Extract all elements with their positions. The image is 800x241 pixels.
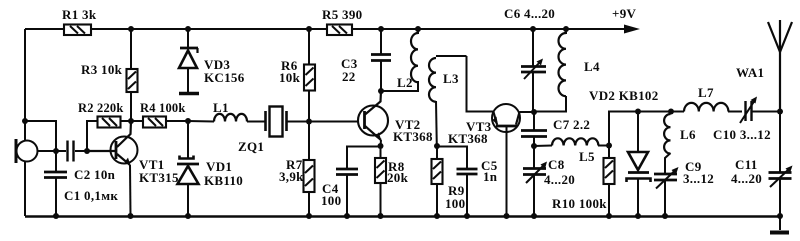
wire node to C5 [437, 147, 467, 170]
capacitor C3 [341, 55, 391, 85]
resistor R2 [78, 101, 124, 128]
svg-text:C7 2.2: C7 2.2 [553, 117, 590, 132]
wire node to R9 [436, 146, 438, 159]
node junction C6/L4/C7/collector VT3 [531, 109, 537, 115]
wire output node up and right [609, 112, 684, 146]
svg-text:L6: L6 [680, 127, 696, 142]
node junction C7/C8/L5 [531, 143, 537, 149]
svg-text:R10 100k: R10 100k [552, 196, 607, 211]
trimmer capacitor C11 [731, 157, 793, 187]
wire L6 bottom to C9 [665, 153, 671, 174]
wire VT2 emitter node [380, 140, 383, 146]
capacitor C7 [521, 117, 590, 137]
trimmer capacitor C6 [504, 6, 555, 79]
wire node to VD2 [637, 112, 639, 153]
transistor VT1 [87, 121, 179, 185]
svg-text:R4 100k: R4 100k [140, 101, 186, 115]
wire R7 to ground rail [308, 192, 310, 216]
svg-text:100: 100 [445, 196, 465, 211]
svg-text:KT315: KT315 [139, 170, 179, 185]
trimmer capacitor C9 [654, 159, 714, 189]
node junction R1/R3 on top rail [128, 26, 134, 32]
wire mic bias branch [25, 121, 56, 151]
node junction R8 on ground rail [378, 213, 384, 219]
trimmer capacitor C8 [523, 157, 575, 187]
node junction VD2 on ground rail [635, 213, 641, 219]
wire C3 bottom to collector node [380, 61, 382, 91]
node junction R9 on ground rail [434, 213, 440, 219]
wire C3 top from rail [380, 29, 382, 54]
svg-text:VD2 KB102: VD2 KB102 [589, 88, 659, 103]
node junction R10 on ground rail [606, 213, 612, 219]
node junction L4 on top rail [563, 26, 569, 32]
wire node to VT2 base [309, 121, 364, 123]
node junction C5 on ground rail [464, 213, 470, 219]
svg-text:10k: 10k [279, 70, 301, 85]
resistor R9 [432, 159, 466, 211]
node junction VT3 base on ground rail [504, 213, 510, 219]
ground terminal bar of VD3 [179, 92, 199, 95]
node junction antenna/C11 on ground rail [777, 213, 783, 219]
wire L3 bottom to R9/C5 node [435, 101, 438, 146]
svg-text:KT368: KT368 [393, 129, 433, 144]
wire C9 to ground rail [664, 181, 666, 217]
trimmer capacitor C10 [713, 97, 771, 143]
wire R9 to ground rail [436, 184, 438, 216]
wire VT3 base to ground rail [506, 127, 508, 216]
resistor R8 [375, 158, 409, 185]
wire R4 to VD1/L1 node [165, 120, 188, 122]
node junction C3 on top rail [378, 26, 384, 32]
svg-text:C10 3...12: C10 3...12 [713, 127, 771, 142]
wire top rail middle segment [91, 28, 327, 30]
wire microphone bottom to ground rail [24, 162, 26, 217]
svg-text:ZQ1: ZQ1 [238, 139, 264, 154]
wire emitter node to C4 [347, 147, 381, 170]
node junction R4/VD1/L1 [185, 118, 191, 124]
wire mic output to C1/C2 node [38, 150, 57, 152]
wire C11 to ground rail [779, 179, 781, 216]
wire top rail left segment [25, 28, 63, 30]
wire node to R10 [608, 146, 610, 159]
svg-text:R1 3k: R1 3k [62, 7, 97, 22]
wire L4 top from rail [565, 29, 567, 34]
transistor VT2 [358, 91, 433, 144]
wire VD3 anode to terminal bar [187, 68, 189, 92]
wire node to C2 [56, 150, 66, 152]
capacitor C4 [321, 169, 358, 208]
wire R6 bottom to node [308, 91, 310, 122]
node junction R7 on ground rail [306, 213, 312, 219]
svg-text:1n: 1n [483, 169, 498, 184]
svg-text:R2 220k: R2 220k [78, 101, 124, 115]
wire VD3 top from rail [187, 29, 189, 48]
wire VD1 to ground rail [187, 184, 189, 216]
svg-text:C6 4...20: C6 4...20 [504, 6, 555, 21]
wire C5 to ground rail [466, 174, 468, 216]
inductor L6 [664, 114, 696, 154]
ground rail bottom [25, 215, 780, 218]
svg-text:+9V: +9V [612, 6, 637, 21]
node junction antenna feed [777, 109, 783, 115]
inductor L7 [684, 85, 728, 112]
node junction C1 on ground rail [53, 213, 59, 219]
wire node to L1 [188, 120, 214, 123]
node junction C4 on ground rail [344, 213, 350, 219]
wire L6 top to node [670, 112, 672, 115]
node junction R6/R7/ZQ1/base VT2 [306, 119, 312, 125]
inductor L4 [558, 33, 599, 96]
svg-text:KB110: KB110 [204, 173, 243, 188]
node junction mic/C1/C2 [53, 148, 59, 154]
svg-text:L3: L3 [443, 71, 459, 86]
resistor R5 [322, 7, 362, 35]
wire node down to R7 [308, 122, 310, 161]
node junction emitter VT2 / C4 / R8 [378, 143, 384, 149]
wire C4 to ground rail [346, 175, 348, 216]
svg-text:C2 10n: C2 10n [74, 167, 116, 182]
wire node to C1 [55, 151, 57, 172]
wire emitter node to R8 [380, 146, 382, 158]
svg-text:100: 100 [321, 193, 341, 208]
wire C6 top from rail [532, 29, 534, 66]
wire R3 top from rail [130, 29, 132, 69]
wire C10 to antenna line [752, 111, 780, 113]
svg-text:KC156: KC156 [204, 70, 245, 85]
node junction VD3 on top rail [185, 26, 191, 32]
svg-text:C11: C11 [735, 157, 758, 172]
svg-text:C1 0,1мк: C1 0,1мк [64, 188, 118, 203]
svg-text:C8: C8 [548, 157, 565, 172]
node junction C8 on ground rail [531, 213, 537, 219]
wire node to R4 [131, 120, 143, 122]
svg-text:4...20: 4...20 [731, 171, 762, 186]
svg-text:WA1: WA1 [736, 65, 764, 80]
wire C7 to C8/L5 node [533, 137, 535, 146]
svg-text:L1: L1 [213, 100, 229, 115]
wire L1 to ZQ1 [247, 121, 265, 123]
node junction R2/R3/R4/collector VT1 [128, 118, 134, 124]
wire R2 to R3 node [120, 120, 131, 122]
svg-text:22: 22 [342, 69, 356, 84]
node junction L5/R10/output [606, 143, 612, 149]
inductor L2 [397, 33, 418, 90]
resistor R10 [552, 158, 615, 211]
svg-text:L4: L4 [584, 59, 600, 74]
wire VD2 to ground rail [637, 179, 639, 216]
varicap diode VD1 [177, 156, 243, 189]
wire antenna line to C11 [779, 112, 781, 173]
node junction VD1 on ground rail [185, 213, 191, 219]
wire node to C8 [533, 146, 535, 168]
svg-text:3...12: 3...12 [683, 171, 714, 186]
wire L2 top from rail [417, 29, 419, 34]
node junction C3/L2/collector VT2 [378, 88, 384, 94]
svg-text:L2: L2 [397, 75, 413, 90]
varicap diode VD2 [589, 88, 659, 182]
wire C6 bottom to collector node [532, 72, 534, 112]
svg-text:L7: L7 [698, 85, 714, 100]
wire left edge down to mic node [24, 29, 26, 121]
wire top rail right segment to +9V arrow [352, 28, 627, 30]
node junction VT1 emitter on ground rail [128, 213, 134, 219]
capacitor C1 [44, 172, 118, 203]
inductor L1 [213, 100, 247, 122]
inductor L3 [429, 56, 467, 102]
wire L3 right leg to VT3 emitter [467, 56, 494, 112]
svg-text:4...20: 4...20 [544, 172, 575, 187]
wire R8 to ground rail [380, 183, 382, 216]
wire C2 to VT1 base node [75, 150, 87, 152]
svg-text:VD1: VD1 [206, 159, 232, 174]
resistor R7 [279, 157, 315, 192]
resistor R4 [140, 101, 186, 128]
resistor R1 [62, 7, 97, 35]
svg-text:R5 390: R5 390 [322, 7, 362, 22]
node junction C9 on ground rail [662, 213, 668, 219]
wire VT3 collector to tank node [520, 111, 535, 113]
ground stub below rail end [770, 216, 789, 233]
wire left edge to microphone top [24, 121, 26, 141]
wire C8 to ground rail [533, 175, 535, 216]
node junction base VT1 [84, 148, 90, 154]
wire base node up to R2 [87, 121, 98, 151]
microphone BM1 [16, 139, 38, 163]
capacitor C5 [457, 158, 498, 184]
svg-text:20k: 20k [387, 170, 409, 185]
node +9V supply arrow [612, 6, 640, 34]
svg-text:R3 10k: R3 10k [81, 62, 123, 77]
svg-text:3,9k: 3,9k [279, 169, 304, 184]
node junction L2 on top rail [415, 26, 421, 32]
wire R6 top from rail [308, 29, 310, 65]
wire L2 bottom to collector node [381, 81, 418, 91]
node junction L3/R9/C5 [434, 143, 440, 149]
wire R10 to ground rail [608, 184, 610, 216]
resistor R6 [279, 58, 315, 91]
wire VT1 emitter to ground rail [129, 165, 132, 216]
wire C1 to ground rail [55, 178, 57, 217]
wire R3 bottom to node [130, 92, 132, 121]
inductor L5 [534, 138, 598, 164]
crystal resonator ZQ1 [238, 107, 287, 155]
wire collector node to C7 [533, 112, 535, 130]
wire L4 bottom to collector node [534, 96, 566, 112]
wire L5 to R10 node [598, 145, 609, 147]
node junction VD2 [635, 109, 641, 115]
zener diode VD3 [179, 48, 245, 85]
svg-text:KT368: KT368 [448, 131, 488, 146]
wire node to VD1 [187, 121, 189, 158]
node junction C6 on top rail [530, 26, 536, 32]
node junction R6 on top rail [306, 26, 312, 32]
node junction left edge / mic bias [22, 118, 28, 124]
wire ZQ1 to R6/R7 node [287, 121, 309, 123]
node junction L6/L7 [668, 109, 674, 115]
capacitor C2 [68, 141, 116, 183]
antenna WA1 [736, 20, 792, 112]
transistor VT3 [448, 104, 520, 146]
wire L7 to C10 [728, 111, 742, 113]
resistor R3 [81, 62, 138, 92]
svg-text:L5: L5 [579, 149, 595, 164]
